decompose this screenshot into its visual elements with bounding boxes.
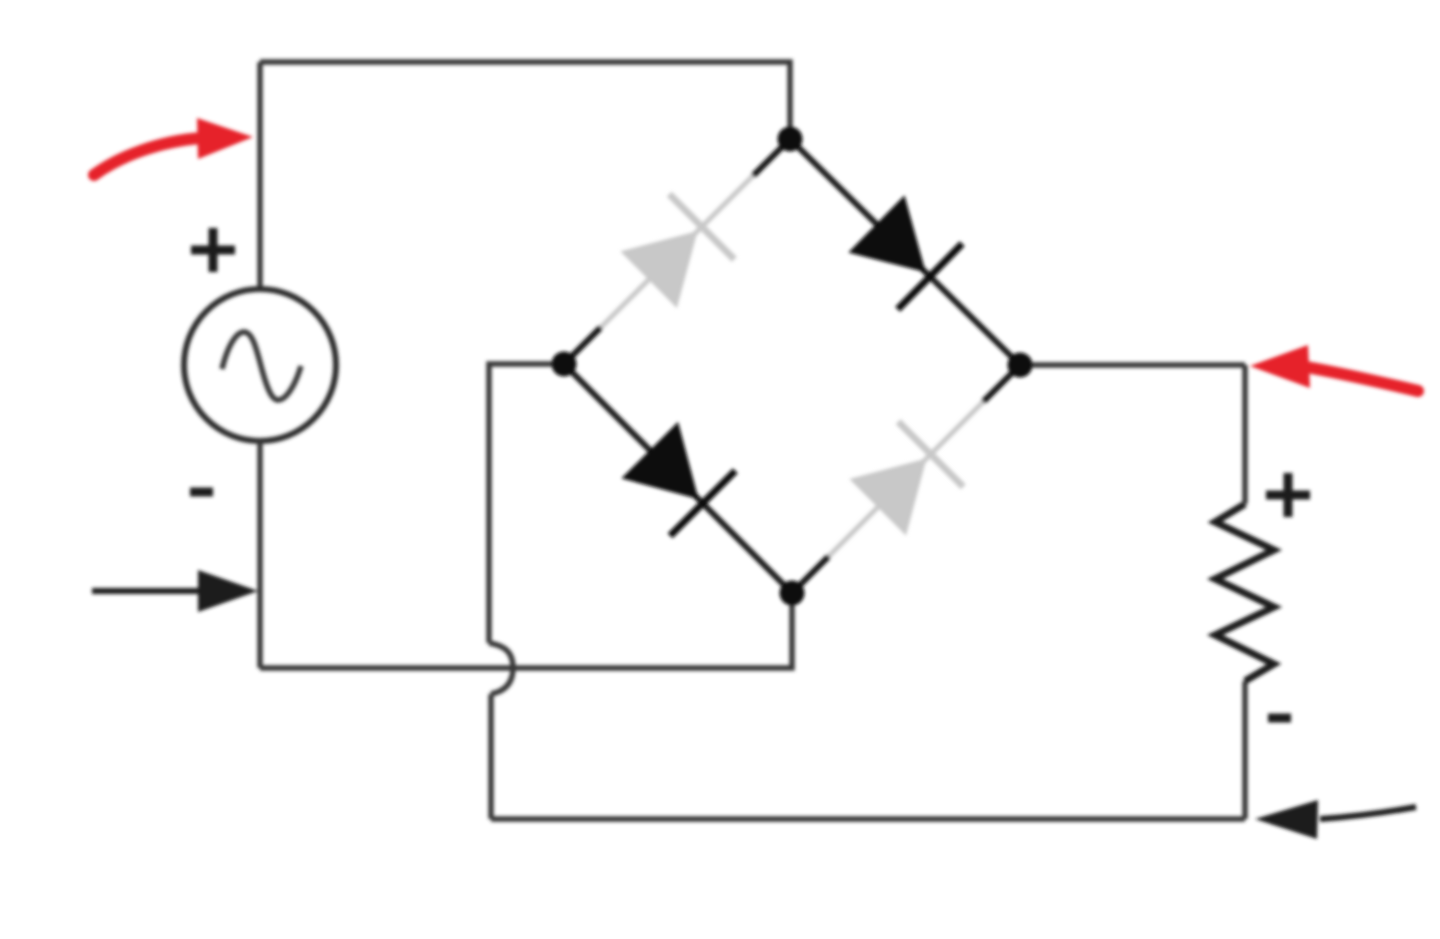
bridge branch bottom-right black stub at bottom node (792, 556, 829, 593)
bridge branch left-top black stub at left node (564, 327, 601, 364)
wire: top loop from top-left corner to top bridge node (260, 62, 790, 139)
node top junction dot (778, 127, 803, 152)
annotation black arrow at bottom-right pointing to corner (1320, 807, 1416, 819)
node left junction dot (552, 352, 577, 377)
diode D3 (black) cathode bar (670, 471, 735, 536)
bridge branch left-bottom (black, carries D3) (564, 364, 792, 593)
diode D2 (black, conducting) triangle on top-right branch (848, 195, 925, 272)
wire: right vertical from bottom rail up to resistor bottom (1242, 681, 1248, 819)
wire: lower-left horizontal from corner to below bottom bridge node (260, 593, 792, 668)
bridge branch left-top black stub at top node (753, 139, 790, 176)
wire: left vertical from source - terminal down to bottom-left corner (257, 441, 263, 668)
wire: left vertical from top-left corner to source + terminal (257, 62, 263, 290)
diode D4 (gray, off) cathode bar (898, 422, 963, 487)
diode D1 (gray, off) triangle on left-top branch (620, 231, 697, 308)
bridge branch left-top (gray, carries D1) (564, 139, 790, 364)
resistor R load zigzag (1215, 504, 1274, 681)
label + polarity at resistor top (1266, 473, 1310, 517)
label - polarity at source bottom (190, 488, 213, 497)
AC source V1 sine symbol (222, 332, 301, 400)
wire: from left bridge node going left then down to hop (489, 364, 564, 643)
wire: hop (jump) over lower-left horizontal wire (489, 643, 513, 694)
diode D2 (black) cathode bar (898, 244, 963, 310)
annotation red current arrow entering right side (1306, 367, 1418, 391)
diode D4 (gray, off) triangle on bottom-right branch (849, 459, 926, 536)
wire: bottom rail to lower-right corner (491, 816, 1245, 822)
label + polarity at source top (191, 228, 235, 272)
diode D1 (gray, off) cathode bar (669, 194, 734, 259)
bridge branch top-right (black, carries D2) (790, 139, 1020, 365)
annotation black arrow at left pointing to return wire (92, 588, 205, 594)
bridge branch bottom-right black stub at right node (983, 365, 1020, 402)
annotation red current arrow entering top-left (94, 138, 202, 175)
bridge branch bottom-right (gray, carries D4) (792, 365, 1020, 593)
label - polarity at resistor bottom (1268, 714, 1291, 723)
wire: right vertical from resistor top up to top-right corner (1242, 365, 1248, 504)
node bottom junction dot (780, 581, 805, 606)
wire: continues below hop down to bottom rail (488, 694, 494, 819)
wire: top-right horizontal from corner to right bridge node (1020, 362, 1245, 368)
AC source V1 circle (184, 289, 336, 441)
node right junction dot (1008, 353, 1033, 378)
diode D3 (black, conducting) triangle on left-bottom branch (621, 422, 698, 499)
